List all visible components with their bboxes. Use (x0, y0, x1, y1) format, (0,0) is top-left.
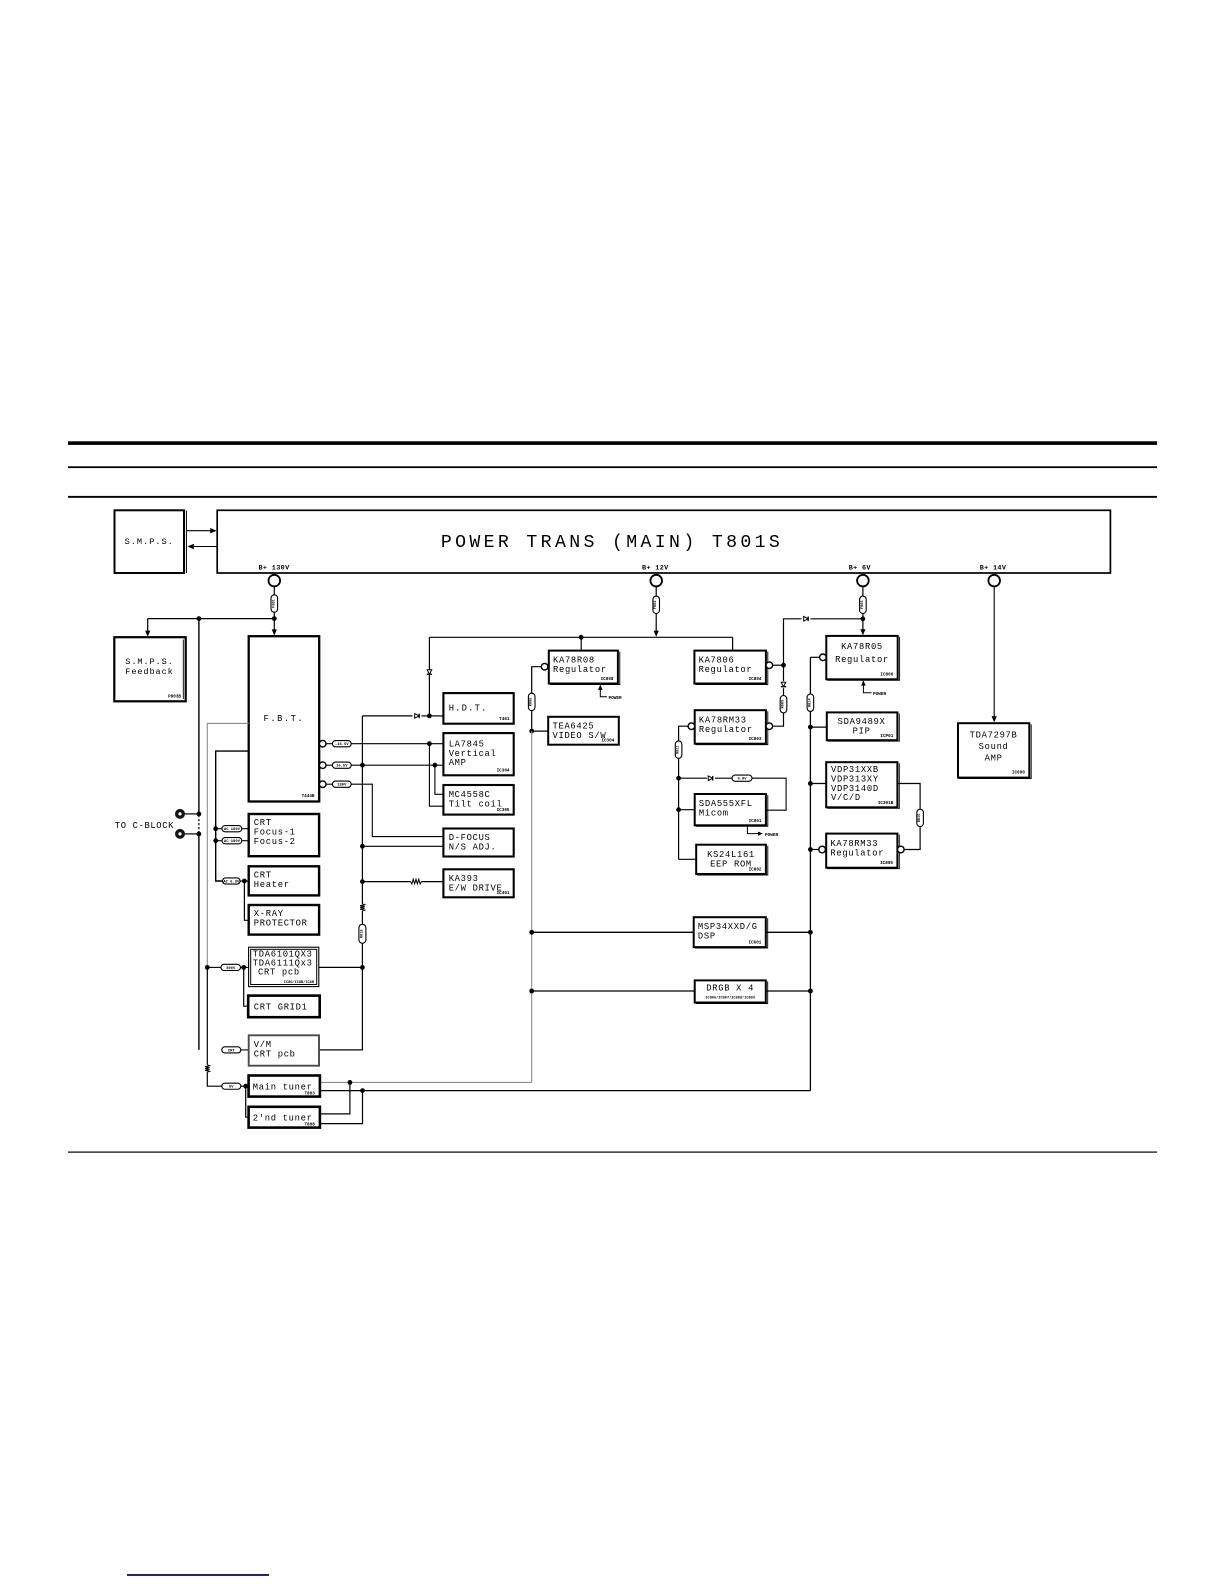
junction 8V rail / SDA9489X (808, 725, 813, 730)
terminal KA78RM33 right input (819, 846, 826, 853)
diode on H.D.T. line (415, 714, 419, 719)
power arrow KA78R08 (600, 689, 607, 697)
terminal FBT 180V (319, 781, 326, 788)
wire bus drop to KA78R08 (580, 637, 582, 650)
connector to C-BLOCK (upper) (175, 809, 185, 819)
svg-text:R815: R815 (918, 814, 922, 823)
wire diode to junction (422, 715, 430, 717)
svg-text:IC600: IC600 (1012, 770, 1025, 775)
svg-text:IC8G/IC8B/IC8R: IC8G/IC8B/IC8R (284, 980, 315, 985)
wire 180V to D-FOCUS (351, 784, 443, 836)
net label 5V (tuner) (222, 1083, 241, 1089)
wire branch to X-RAY PROTECTOR (244, 881, 248, 920)
wire FBT 300V grey net (left side) (207, 723, 248, 967)
power arrow KA78R05 (863, 685, 871, 693)
svg-text:IC301B: IC301B (878, 801, 894, 806)
wire KA78RM33 output to 3.3V rail (679, 726, 689, 741)
S.M.P.S. box double right edge (185, 511, 187, 574)
svg-text:F803: F803 (861, 600, 865, 609)
wire 8V rail bottom to tuners (320, 1090, 811, 1092)
wire zener to fuse (783, 688, 785, 695)
wire 5V rail to DRGB (532, 990, 695, 992)
block LA7845 Vertical AMP (443, 733, 513, 775)
wire left rail x199 lower (198, 834, 200, 1050)
footer blue underline (127, 1574, 269, 1576)
wire VDP output to KA78RM33 right (904, 827, 920, 849)
svg-text:300V: 300V (226, 967, 236, 971)
fuse on rail x362 (359, 924, 366, 943)
svg-text:E/W DRIVE: E/W DRIVE (449, 883, 503, 893)
svg-text:B+ 130V: B+ 130V (259, 565, 291, 573)
svg-text:F801: F801 (272, 599, 276, 608)
block KS24L161 EEP ROM (696, 845, 766, 874)
svg-text:Sound: Sound (979, 742, 1009, 752)
wire FBT 180V to label (326, 783, 333, 785)
net label 16.5V (332, 762, 351, 768)
resistor on 300V/UN rail (205, 1065, 210, 1072)
svg-text:POWER TRANS (MAIN) T801S: POWER TRANS (MAIN) T801S (441, 533, 783, 553)
junction left rail / C-BLOCK lower (197, 832, 202, 837)
wire 9V rail down (783, 665, 785, 681)
junction tuner line / 2nd tuner branch (360, 1088, 365, 1093)
wire rail to E/W resistor (362, 881, 410, 883)
svg-text:R805: R805 (530, 698, 534, 707)
svg-text:IC305: IC305 (497, 808, 510, 813)
svg-text:AC 180V: AC 180V (224, 840, 241, 844)
wire MSP right to 8V rail (766, 931, 811, 933)
svg-text:TO C-BLOCK: TO C-BLOCK (115, 821, 174, 831)
wire FBT -16.5V to label (326, 743, 333, 745)
junction rail x362 / TDA6101 output (360, 965, 365, 970)
wire 9V rail up to diode line (784, 619, 802, 665)
svg-text:Micom: Micom (699, 809, 729, 819)
svg-text:N/S ADJ.: N/S ADJ. (449, 843, 497, 853)
junction feedback / left 130V rail (197, 616, 202, 621)
block D-FOCUS N/S ADJ (443, 829, 513, 857)
svg-text:Regulator: Regulator (699, 725, 753, 735)
arrow into Main tuner (244, 1084, 248, 1088)
junction H.D.T. line (427, 714, 432, 719)
wire branch to 2nd tuner lower (320, 1091, 363, 1124)
junction 300V grey rail / label (205, 965, 210, 970)
junction 9V rail (781, 663, 786, 668)
svg-text:KA78RM33: KA78RM33 (830, 839, 878, 849)
svg-text:AC 6.3V: AC 6.3V (223, 880, 240, 884)
junction 5V wire / 2nd tuner branch (348, 1080, 353, 1085)
wire 300V label to TDA6101 box (241, 966, 249, 968)
svg-text:T444B: T444B (302, 794, 315, 799)
block TDA6101QX3 CRT pcb (249, 947, 319, 986)
net label -16.5V (332, 741, 351, 747)
block KA7806 Regulator (694, 651, 766, 684)
svg-text:T461: T461 (499, 717, 510, 722)
svg-text:KA7806: KA7806 (699, 656, 735, 666)
net label 180V (332, 781, 351, 787)
junction 8V rail / DRGB (808, 989, 813, 994)
svg-text:R809: R809 (782, 700, 786, 709)
wire branch to CRT GRID1 (244, 967, 249, 1006)
svg-text:Tilt coil: Tilt coil (449, 800, 503, 810)
svg-text:SDA555XFL: SDA555XFL (699, 799, 753, 809)
svg-text:F.B.T.: F.B.T. (264, 714, 305, 724)
svg-text:IC806: IC806 (880, 673, 893, 678)
junction 8V rail / VDP (808, 781, 813, 786)
wire branch to 2nd tuner left (246, 1086, 249, 1117)
svg-text:6.0V: 6.0V (737, 778, 747, 782)
svg-text:T803: T803 (304, 1091, 315, 1096)
resistor on rail x362 (360, 904, 365, 911)
fuse on 3.3V rail (675, 741, 682, 758)
svg-text:R810: R810 (360, 929, 364, 938)
block Main tuner T803 (249, 1076, 320, 1097)
wire 9V rail to KA78RM33 (773, 713, 784, 726)
block S.M.P.S. Feedback (114, 637, 185, 701)
svg-text:CRT: CRT (254, 871, 272, 881)
svg-text:X-RAY: X-RAY (254, 909, 284, 919)
page rule 3 (thin) (68, 496, 1157, 498)
junction 16.5V / MC4558C upper branch (433, 763, 438, 768)
wire 16.5V to LA7845 (351, 764, 443, 766)
wire 8V rail upper (809, 657, 811, 694)
net label 300V (221, 964, 241, 970)
svg-text:V/C/D: V/C/D (831, 793, 861, 803)
wire 3.3V rail to SDA555XFL (679, 809, 695, 811)
wire bus drop to KA7806 (732, 637, 734, 650)
junction 5V rail / MSP DSP (529, 930, 534, 935)
junction heater net / focus-2 (213, 838, 218, 843)
wire focus-1 label to box (242, 828, 249, 830)
wire 3.3V rail down (678, 758, 680, 859)
block CRT Heater (249, 866, 319, 895)
wire diode to 6.0V label (715, 777, 732, 779)
wire transformer to S.M.P.S. (arrow left) (193, 546, 217, 548)
svg-text:S.M.P.S.: S.M.P.S. (125, 657, 173, 667)
wire focus-2 label to box (242, 840, 249, 842)
fuse on 5V rail (528, 693, 535, 710)
wire bus left drop to H.D.T. line (428, 637, 430, 716)
svg-text:CRT GRID1: CRT GRID1 (254, 1003, 308, 1013)
svg-text:Regulator: Regulator (553, 665, 607, 675)
svg-text:B+ 12V: B+ 12V (642, 565, 669, 573)
svg-text:IC304: IC304 (497, 769, 510, 774)
terminal B+ 12V (650, 575, 662, 587)
wire KA78R05 to 8V rail (810, 656, 819, 658)
net label 6.0V (732, 775, 752, 781)
wire resistor to KA393 (422, 881, 444, 883)
junction heater net / focus-1 (213, 826, 218, 831)
wire 5V rail fuse to TEA junction (531, 711, 533, 732)
wire rail x362 lower to V/M pcb (319, 943, 362, 1050)
wire 8V rail main (809, 711, 811, 1090)
block KA78R08 Regulator (549, 651, 618, 684)
block V/M CRT pcb (249, 1035, 319, 1065)
junction rail x362 / KA393 (360, 879, 365, 884)
wire branch to 2nd tuner upper (320, 1082, 350, 1114)
svg-text:MC4558C: MC4558C (449, 790, 491, 800)
block 2'nd tuner T808 (249, 1107, 320, 1128)
wire CRT label to V/M box (241, 1049, 249, 1051)
svg-text:180V: 180V (337, 784, 347, 788)
wire rail x362 to fuse (361, 911, 363, 924)
wire vertical rail x362 (HDT to VM) (361, 716, 363, 904)
junction 12V bus / KA78R08 (579, 635, 584, 640)
wire S.M.P.S. to transformer (arrow right) (187, 530, 211, 532)
svg-text:IC304: IC304 (601, 738, 614, 743)
wire FBT 16.5V to label (326, 764, 333, 766)
wire B+6V to fuse (862, 586, 864, 596)
block CRT GRID1 (248, 996, 320, 1018)
block TEA6425 VIDEO S/W (548, 717, 619, 745)
svg-text:S.M.P.S.: S.M.P.S. (125, 537, 174, 547)
svg-text:IC808: IC808 (601, 677, 614, 682)
wire 300V rail continues down (206, 967, 208, 1064)
resistor on KA393 E/W line (411, 879, 422, 884)
svg-text:MSP34XXD/G: MSP34XXD/G (698, 922, 758, 932)
wire 300V rail to label (207, 966, 221, 968)
svg-text:KA393: KA393 (449, 874, 479, 884)
svg-text:CRT pcb: CRT pcb (258, 967, 300, 977)
svg-text:R811: R811 (677, 745, 681, 754)
svg-text:T808: T808 (304, 1122, 315, 1127)
junction B+6V / KA7806 diode branch (861, 616, 866, 621)
svg-text:CRT: CRT (228, 1049, 236, 1053)
wire 3.3V rail to KS24L161 (679, 858, 697, 860)
fuse on 8V rail (807, 694, 814, 711)
wire heater label to box (240, 880, 249, 882)
terminal KA78R05 input (820, 654, 827, 661)
wire to TEA6425 (532, 730, 549, 732)
block DRGB X 4 (695, 980, 766, 1002)
svg-text:V/M: V/M (254, 1040, 272, 1050)
svg-text:ICP01: ICP01 (880, 734, 893, 739)
terminal KA78RM33 left input (766, 723, 773, 730)
junction 300V / CRT GRID1 branch (241, 965, 246, 970)
wire SDA555 power out (747, 825, 758, 833)
junction -16.5V / MC4558C branch (427, 741, 432, 746)
svg-text:IC804: IC804 (749, 677, 762, 682)
junction 5V rail / DRGB (529, 989, 534, 994)
wire B+130V to fuse (273, 586, 275, 595)
block CRT Focus-1 Focus-2 (249, 814, 319, 856)
svg-text:IC803: IC803 (749, 737, 762, 742)
wire -16.5V to LA7845 (351, 743, 443, 745)
terminal KA78RM33 left output (688, 723, 695, 730)
S.M.P.S. Feedback inner right edge (182, 640, 184, 700)
wire B+12V to fuse (655, 586, 657, 596)
svg-text:5V: 5V (229, 1086, 234, 1090)
svg-text:TEA6425: TEA6425 (553, 722, 595, 732)
svg-text:PIP: PIP (853, 727, 871, 737)
svg-text:POWER: POWER (873, 692, 887, 697)
wire 6.0V label to SDA555 right side (752, 778, 786, 810)
wire left rail dashed segment (198, 815, 200, 833)
fuse on VDP output (917, 809, 924, 826)
svg-text:R814: R814 (808, 698, 812, 707)
svg-text:VIDEO S/W: VIDEO S/W (553, 731, 607, 741)
junction rail x362 / D-FOCUS (360, 844, 365, 849)
wire -16.5V branch down to MC4558C (429, 744, 443, 807)
block KA78RM33 Regulator (left) (695, 710, 766, 744)
wire 16.5V branch to MC4558C (435, 765, 444, 794)
svg-text:Regulator: Regulator (830, 849, 884, 859)
fuse F803 (B+6V) (860, 596, 867, 613)
connector to C-BLOCK (lower) (175, 829, 185, 839)
terminal B+ 130V (269, 575, 281, 587)
wire to SDA9489X (810, 726, 826, 728)
wire B+130V fuse to F.B.T. (arrow into FBT) (273, 612, 275, 631)
wire B+6V fuse to KA78R05 (arrow) (862, 614, 864, 632)
net label AC 6.3V (heater) (223, 878, 241, 884)
wire left rail x199 upper (198, 619, 200, 815)
wire 5V label to Main tuner (241, 1085, 249, 1087)
svg-text:KA78R08: KA78R08 (553, 656, 595, 666)
wire feedback line y618 (148, 618, 275, 620)
wire FBT heater net (left side) (216, 751, 249, 881)
zener diode on H.D.T. drop (427, 670, 432, 674)
diode KA7806 to B+6V (804, 617, 808, 622)
svg-text:SDA9489X: SDA9489X (838, 717, 886, 727)
block X-RAY PROTECTOR (249, 905, 319, 935)
wire TDA6101 CRT pcb to rail (319, 966, 363, 968)
wire C-BLOCK lower to rail (185, 833, 199, 835)
diode on micom loop (708, 776, 712, 781)
svg-text:Feedback: Feedback (125, 667, 173, 677)
junction 8V rail / KA78RM33 right (808, 847, 813, 852)
junction 16.5V / vertical rail (360, 763, 365, 768)
svg-text:TDA7297B: TDA7297B (970, 730, 1018, 740)
page bottom rule (68, 1152, 1157, 1153)
svg-text:KS24L161: KS24L161 (707, 850, 755, 860)
svg-text:CRT pcb: CRT pcb (254, 1049, 296, 1059)
junction left rail / C-BLOCK upper (197, 812, 202, 817)
svg-text:EEP ROM: EEP ROM (710, 860, 752, 870)
wire KA7806 to 9V rail (773, 664, 784, 666)
block F.B.T. T444 (249, 636, 320, 801)
svg-text:Regulator: Regulator (835, 655, 889, 665)
block S.M.P.S. (115, 510, 185, 573)
block SDA555XFL Micom (695, 794, 766, 825)
zener on 9V rail (781, 682, 786, 686)
block MC4558C Tilt coil (443, 785, 513, 815)
wire VDP right output (897, 784, 920, 809)
junction 8V rail / MSP (808, 930, 813, 935)
wire rail to focus-1 label (216, 828, 222, 830)
terminal B+ 6V (857, 575, 869, 587)
net label AC 180V (focus-1) (222, 826, 242, 832)
svg-text:IC806/IC807/IC808/IC809: IC806/IC807/IC808/IC809 (705, 995, 755, 1000)
block KA78R05 Regulator (826, 636, 897, 679)
fuse on 9V rail (780, 696, 787, 713)
wire 5V grey rail down (531, 731, 533, 1082)
svg-text:F802: F802 (654, 600, 658, 609)
svg-text:DSP: DSP (698, 932, 716, 942)
wire 5V rail to MSP DSP (532, 931, 694, 933)
junction 3.3V rail / SDA555 (676, 807, 681, 812)
wire reset loop to diode (679, 777, 707, 779)
terminal FBT -16.5V (319, 740, 326, 747)
wire H.D.T. line left segment (362, 715, 412, 717)
junction tuner 5V branch (243, 1084, 248, 1089)
svg-text:D-FOCUS: D-FOCUS (449, 833, 491, 843)
block SDA9489X PIP (827, 712, 898, 740)
svg-text:B+ 6V: B+ 6V (849, 565, 872, 573)
svg-text:-16.5V: -16.5V (335, 743, 349, 747)
block MSP34XXD/G DSP (694, 917, 766, 947)
svg-text:16.5V: 16.5V (336, 765, 348, 769)
wire rail to UN label (207, 1072, 222, 1086)
wire C-BLOCK upper to rail (185, 813, 199, 815)
svg-text:AMP: AMP (985, 753, 1003, 763)
fuse F801 (B+130V) (271, 595, 278, 612)
svg-text:CRT: CRT (254, 818, 272, 828)
wire feedback drop to S.M.P.S. Feedback (arrow) (147, 619, 149, 633)
wire KA78R08 terminal to 5V rail (532, 667, 542, 694)
svg-text:AC 180V: AC 180V (224, 828, 241, 832)
block KA78RM33 Regulator (right) (826, 834, 897, 868)
junction heater / x-ray branch (242, 879, 247, 884)
svg-text:B+ 14V: B+ 14V (980, 565, 1007, 573)
wire 5V grey rail to Main tuner (320, 1081, 532, 1083)
net label AC 180V (focus-2) (222, 838, 242, 844)
svg-text:Focus-2: Focus-2 (254, 837, 296, 847)
svg-text:KA78RM33: KA78RM33 (699, 715, 747, 725)
junction 3.3V rail / micom reset loop (676, 776, 681, 781)
svg-text:IC805: IC805 (880, 861, 893, 866)
wire B+12V fuse to 12V bus (arrow) (655, 614, 657, 633)
wire to KA78RM33 right input (810, 849, 818, 851)
wire 12V bus y637 (429, 636, 732, 638)
block KA393 E/W DRIVE (443, 869, 513, 897)
wire rail to D-FOCUS lower (362, 845, 443, 847)
block H.D.T. T461 (443, 693, 513, 724)
page rule 2 (thin) (68, 466, 1157, 468)
junction 5V rail / TEA6425 (529, 729, 534, 734)
block TDA7297B Sound AMP (958, 723, 1029, 777)
wire to VDP (810, 783, 826, 785)
terminal KA7806 output (766, 662, 773, 669)
svg-text:IC601: IC601 (748, 941, 761, 946)
svg-text:IC401: IC401 (497, 891, 510, 896)
wire B+14V to TDA7297B (arrow) (993, 586, 995, 717)
svg-text:P803B: P803B (168, 695, 181, 700)
svg-text:DRGB X 4: DRGB X 4 (706, 984, 754, 994)
svg-text:POWER: POWER (609, 696, 623, 701)
junction B+130V / feedback line (272, 616, 277, 621)
page top rule (thick) (68, 441, 1157, 445)
fuse F802 (B+12V) (653, 596, 660, 613)
svg-text:Regulator: Regulator (699, 665, 753, 675)
svg-text:POWER: POWER (765, 833, 779, 838)
block VDP31XXB V/C/D (826, 762, 897, 807)
power transformer T801S block (217, 510, 1110, 573)
svg-text:Heater: Heater (254, 880, 290, 890)
wire diode to B+6V line (811, 618, 863, 620)
svg-text:Focus-1: Focus-1 (254, 828, 296, 838)
svg-text:KA78R05: KA78R05 (841, 642, 883, 652)
svg-text:PROTECTOR: PROTECTOR (254, 919, 308, 929)
terminal KA78RM33 right output (898, 846, 905, 853)
wire rail to focus-2 label (216, 840, 222, 842)
svg-text:H.D.T.: H.D.T. (449, 704, 488, 714)
svg-text:AMP: AMP (449, 758, 467, 768)
svg-text:IC801: IC801 (749, 819, 762, 824)
terminal FBT 16.5V (319, 762, 326, 769)
net label CRT (V/M) (222, 1047, 241, 1053)
terminal B+ 14V (988, 575, 1000, 587)
terminal KA78R08 input (541, 663, 548, 670)
wire DRGB right to 8V rail (766, 990, 811, 992)
wire into H.D.T. (429, 715, 443, 717)
